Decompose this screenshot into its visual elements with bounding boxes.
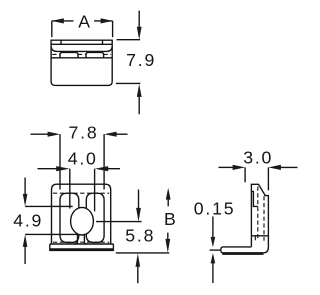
base thick bottom view2 — [50, 248, 114, 251]
body outline view1 — [51, 40, 112, 85]
notch below hole view2 — [75, 233, 78, 244]
svg-text:5.8: 5.8 — [125, 226, 155, 246]
ext line 7.8 right — [103, 134, 105, 189]
body outline view2 — [52, 184, 111, 244]
hidden tab right view1 — [86, 52, 104, 57]
svg-text:4.0: 4.0 — [68, 148, 98, 168]
arrow 3.0 right — [280, 166, 297, 168]
base left edge view2 — [49, 244, 51, 251]
latch tick right view1 — [102, 40, 104, 44]
body top line view1 — [51, 57, 112, 59]
leader 4.9 bottom — [25, 233, 78, 235]
svg-text:B: B — [164, 209, 178, 229]
ext line 7.8 left — [59, 134, 61, 189]
wall dashed line 2 view3 — [263, 196, 265, 241]
arrow 5.8 top — [138, 190, 140, 209]
wall cross line view3 — [251, 235, 268, 237]
wall small dashes view3 — [254, 237, 256, 241]
base junction line view2 — [50, 243, 114, 245]
lid lower line view1 — [51, 43, 112, 45]
arrow B top — [167, 199, 169, 206]
arrow 7.9 bottom — [138, 97, 140, 115]
arrow 7.9 top — [138, 11, 140, 28]
dim line A left segment — [52, 20, 74, 22]
base right edge view2 — [112, 244, 114, 251]
ext line 7.9 bottom — [116, 82, 140, 84]
arrow 4.0 right — [108, 168, 121, 170]
ext line 0.15 — [210, 249, 221, 251]
arrow 3.0 left — [219, 166, 234, 168]
wall outline view3 — [223, 184, 269, 253]
arrow 7.8 right — [116, 133, 128, 135]
arrow 4.9 top — [24, 178, 26, 195]
foot top edge view3 — [223, 246, 252, 248]
ext line 5.8 bottom — [116, 252, 169, 254]
svg-text:0.15: 0.15 — [194, 199, 236, 219]
leader 4.9 top — [25, 205, 73, 207]
slot left view2 — [60, 193, 79, 242]
latch tick left view1 — [60, 40, 62, 44]
wall dashed line 1 view3 — [257, 187, 259, 241]
arrowhead A right — [101, 18, 113, 23]
svg-text:4.9: 4.9 — [13, 211, 43, 231]
wall ledge view3 — [251, 191, 257, 206]
arrow 0.15 top — [212, 217, 214, 238]
arrow 4.0 left — [38, 168, 58, 170]
svg-text:A: A — [78, 12, 92, 32]
arrow 7.8 left — [31, 133, 49, 135]
slot right view2 — [86, 193, 104, 242]
arrowhead A left — [52, 18, 64, 23]
hidden dashed line bottom view2 — [53, 241, 109, 243]
ext line A left — [51, 21, 53, 37]
ext line 4.0 right — [94, 169, 96, 212]
arrow B bottom — [167, 233, 169, 240]
foot thick bottom view3 — [222, 252, 263, 255]
lid shoulder line with fillets view1 — [51, 47, 112, 52]
dim line A right segment — [94, 20, 113, 22]
ext line 4.0 left — [69, 169, 71, 209]
ext line A right — [112, 21, 114, 37]
svg-text:7.8: 7.8 — [69, 123, 99, 143]
center hole ellipse view2 — [71, 207, 94, 235]
foot left cap view3 — [221, 247, 223, 253]
ext line 5.8 top — [96, 221, 142, 223]
ext line 7.9 top — [117, 39, 141, 41]
arrow 0.15 bottom — [212, 263, 214, 283]
hidden tab left view1 — [60, 52, 78, 57]
arrow 4.9 bottom — [24, 246, 26, 264]
svg-text:7.9: 7.9 — [126, 50, 156, 70]
svg-text:3.0: 3.0 — [243, 148, 273, 168]
hidden dashed row view1 — [52, 53, 60, 55]
arrow 5.8 bottom — [137, 266, 139, 283]
ext line 3.0 right — [267, 167, 269, 190]
hidden dashed line top view2 — [53, 192, 109, 194]
ext line 3.0 left — [244, 167, 246, 182]
